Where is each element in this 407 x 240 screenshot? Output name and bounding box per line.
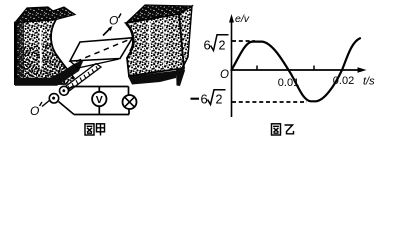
slip ring 1 xyxy=(49,94,58,103)
left magnet front face (stippled, concave right side) xyxy=(15,20,74,85)
caption 图甲 xyxy=(85,124,105,136)
coil (rectangular loop, in front) xyxy=(70,38,133,61)
dashed level +6sqrt2 xyxy=(232,40,255,42)
right magnet top face (black) xyxy=(126,5,192,23)
svg-text:6: 6 xyxy=(204,38,211,53)
lamp xyxy=(123,95,137,109)
coil lower double edge xyxy=(70,59,119,68)
left magnet top face xyxy=(15,7,75,23)
sine curve xyxy=(232,38,361,101)
svg-text:V: V xyxy=(96,94,103,106)
svg-text:O: O xyxy=(109,14,118,28)
right magnet bottom-right corner piece xyxy=(176,67,185,87)
x axis xyxy=(232,69,363,71)
circuit wires xyxy=(68,86,74,90)
slip ring 2 xyxy=(60,86,69,95)
right magnet white veins xyxy=(149,20,152,68)
svg-text:O: O xyxy=(220,69,229,81)
dashed axle inside coil xyxy=(76,40,128,62)
y axis xyxy=(231,17,233,117)
left magnet lower-half darkening overlay xyxy=(17,44,74,83)
svg-text:2: 2 xyxy=(219,39,226,53)
left magnet bottom black band xyxy=(15,59,84,86)
svg-text:e/v: e/v xyxy=(235,13,250,25)
label -6sqrt2 xyxy=(191,98,200,100)
svg-text:O: O xyxy=(30,104,39,118)
svg-text:6: 6 xyxy=(201,92,208,107)
svg-text:2: 2 xyxy=(216,93,223,107)
ticks xyxy=(256,66,258,71)
right magnet right side face xyxy=(179,6,192,67)
thin axle line to O' (bottom) xyxy=(42,100,50,107)
svg-text:t/s: t/s xyxy=(363,76,375,88)
left magnet inner dark strip xyxy=(17,23,24,81)
svg-text:0.02: 0.02 xyxy=(333,75,354,87)
right magnet cut edge emphasis xyxy=(127,24,134,52)
left magnet white vein xyxy=(40,28,43,68)
axle top segment with arrowhead, to O' xyxy=(103,28,111,36)
hatched axle rod xyxy=(64,64,101,93)
dashed level -6sqrt2 xyxy=(232,101,307,103)
svg-text:0.01: 0.01 xyxy=(278,77,299,89)
left magnet thick left edge xyxy=(14,22,18,85)
caption 图乙 xyxy=(272,124,294,135)
voltmeter V xyxy=(92,92,106,106)
right magnet front face (stippled, concave left side) xyxy=(126,14,184,76)
right magnet bottom black band xyxy=(128,71,177,85)
